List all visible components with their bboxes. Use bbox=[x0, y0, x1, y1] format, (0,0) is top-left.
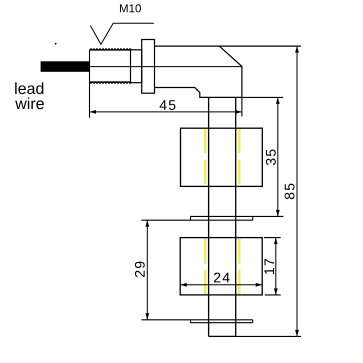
retaining ring 1 bottom edge + dim 29 top extension line bbox=[142, 219, 253, 221]
vertical shaft tube right line bbox=[235, 97, 237, 336]
dimension 29: top arrowhead bbox=[145, 220, 149, 227]
float 2 rectangle bbox=[180, 238, 262, 295]
float 1 yellow dashed lines bbox=[205, 129, 239, 186]
dimension 29: dimension line bbox=[146, 220, 148, 320]
retaining ring 2 bottom edge bbox=[191, 322, 253, 324]
dimension 29: text bbox=[135, 262, 145, 277]
dimension 35: top extension line (elbow bottom continued) bbox=[242, 96, 283, 98]
collar step between thread and hex nut bbox=[131, 50, 142, 83]
dimension 85: dimension line bbox=[296, 46, 298, 336]
retaining ring 1 right edge bbox=[252, 216, 254, 220]
dimension 85: bottom extension line (tube bottom continued) bbox=[236, 335, 301, 337]
dimension 24: right arrowhead bbox=[256, 283, 263, 287]
dimension 17: bottom extension line bbox=[265, 294, 281, 296]
stray dot artifact bbox=[55, 43, 57, 45]
dimension 35: top arrowhead bbox=[276, 97, 280, 104]
float 1 rectangle bbox=[181, 128, 263, 186]
dimension 24: left arrowhead bbox=[180, 283, 187, 287]
dimension 17: top extension line bbox=[264, 237, 281, 239]
dimension 45: right arrowhead bbox=[235, 110, 242, 114]
elbow body outline (chamfered corner, stepped bottom) bbox=[155, 46, 242, 97]
dimension 24: text bbox=[214, 273, 230, 283]
lead wire (black cable) bbox=[41, 61, 89, 72]
dimension 85: text bbox=[285, 184, 295, 200]
dimension 24: dimension line bbox=[180, 284, 262, 286]
threaded section M10: bottom edge with knurl teeth bbox=[90, 81, 131, 83]
float 2 yellow dashed lines bbox=[205, 238, 239, 295]
dimension 29: bottom arrowhead bbox=[145, 313, 149, 320]
threaded section M10: top edge with knurl teeth bbox=[90, 49, 131, 51]
dimension 17: dimension line bbox=[275, 238, 277, 295]
dimension 45: left extension line (thread left edge continued) bbox=[89, 50, 91, 118]
dimension 45: dimension line bbox=[90, 111, 242, 113]
retaining ring 2 left edge bbox=[190, 320, 192, 323]
dimension 45: right extension line bbox=[241, 97, 243, 116]
dimension 17: text bbox=[264, 259, 274, 274]
body top edge + dim 85 top extension line bbox=[155, 45, 301, 47]
vertical shaft tube left line bbox=[208, 97, 210, 336]
centerline of horizontal body bbox=[50, 66, 242, 68]
dimension 17: bottom arrowhead bbox=[274, 288, 278, 295]
hex nut flange bbox=[142, 40, 155, 94]
shaft tube bottom edge bbox=[209, 335, 236, 337]
dimension 35: bottom arrowhead bbox=[276, 210, 280, 217]
retaining ring 1 top edge + dim 35 bottom extension line bbox=[191, 215, 284, 217]
dimension 35: dimension line bbox=[277, 97, 279, 216]
label: lead wire bbox=[15, 82, 43, 94]
dimension 35: text bbox=[266, 149, 276, 165]
retaining ring 1 left edge bbox=[190, 216, 192, 220]
leader arrow from M10 to thread bbox=[90, 23, 153, 44]
retaining ring 2 top edge + dim 29 bottom extension line bbox=[142, 319, 253, 321]
retaining ring 2 right edge bbox=[252, 320, 254, 323]
dimension 85: top arrowhead bbox=[295, 46, 299, 53]
dimension 85: bottom arrowhead bbox=[295, 330, 299, 337]
dimension 45: left arrowhead bbox=[90, 110, 97, 114]
label M10 bbox=[120, 4, 141, 12]
dimension 45: text bbox=[160, 100, 176, 110]
dimension 17: top arrowhead bbox=[274, 238, 278, 245]
